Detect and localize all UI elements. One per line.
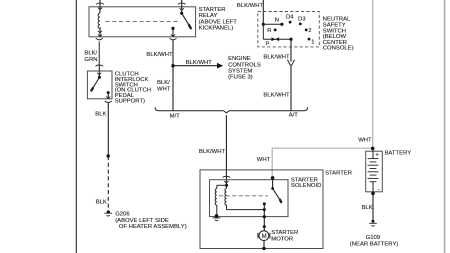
svg-text:GRN: GRN — [84, 57, 97, 63]
svg-text:BLK: BLK — [95, 112, 106, 118]
svg-text:BLK/WHT: BLK/WHT — [146, 52, 173, 58]
svg-text:STARTER: STARTER — [325, 170, 352, 176]
svg-text:G109: G109 — [366, 235, 380, 241]
svg-text:P: P — [266, 41, 270, 47]
svg-text:STARTER: STARTER — [199, 7, 226, 13]
svg-text:(FUSE 3): (FUSE 3) — [228, 75, 253, 81]
svg-text:SYSTEM: SYSTEM — [228, 68, 252, 74]
svg-text:1: 1 — [311, 39, 314, 45]
svg-text:WHT: WHT — [257, 157, 271, 163]
svg-text:A/T: A/T — [289, 113, 299, 119]
svg-text:M/T: M/T — [170, 114, 181, 120]
svg-text:G206: G206 — [115, 212, 130, 218]
svg-text:CONTROLS: CONTROLS — [228, 62, 261, 68]
svg-text:BLK/: BLK/ — [157, 80, 170, 86]
svg-text:WHT: WHT — [358, 137, 372, 143]
svg-text:SUPPORT): SUPPORT) — [115, 99, 145, 105]
svg-text:(ABOVE LEFT SIDE: (ABOVE LEFT SIDE — [115, 218, 169, 224]
svg-text:2: 2 — [308, 28, 311, 34]
svg-text:ENGINE: ENGINE — [228, 56, 251, 62]
svg-text:RELAY: RELAY — [199, 13, 218, 19]
svg-text:BLK/WHT: BLK/WHT — [237, 3, 264, 9]
svg-text:BLK: BLK — [96, 200, 107, 206]
svg-text:+: + — [375, 151, 379, 158]
svg-text:M: M — [262, 234, 267, 240]
svg-text:MOTOR: MOTOR — [271, 236, 293, 242]
svg-text:CONSOLE): CONSOLE) — [323, 46, 354, 52]
svg-text:KICKPANEL): KICKPANEL) — [199, 25, 234, 31]
svg-text:STARTER: STARTER — [271, 230, 298, 236]
svg-text:OF HEATER ASSEMBLY): OF HEATER ASSEMBLY) — [119, 224, 187, 230]
svg-text:-: - — [378, 187, 380, 193]
svg-text:BLK/WHT: BLK/WHT — [263, 54, 290, 60]
svg-text:BLK/WHT: BLK/WHT — [199, 149, 226, 155]
svg-text:N: N — [275, 18, 279, 24]
svg-text:WHT: WHT — [157, 86, 171, 92]
svg-text:D3: D3 — [298, 17, 306, 23]
svg-text:BLK/WHT: BLK/WHT — [263, 92, 290, 98]
svg-text:BATTERY: BATTERY — [385, 150, 412, 156]
svg-text:BLK/: BLK/ — [84, 51, 97, 57]
svg-text:D4: D4 — [286, 14, 294, 20]
svg-text:(NEAR BATTERY): (NEAR BATTERY) — [350, 242, 399, 248]
svg-text:R: R — [267, 28, 271, 34]
svg-text:SOLENOID: SOLENOID — [291, 183, 321, 189]
svg-text:BLK/WHT: BLK/WHT — [186, 60, 213, 66]
svg-text:(ABOVE LEFT: (ABOVE LEFT — [199, 19, 238, 25]
svg-text:BLK: BLK — [362, 205, 373, 211]
